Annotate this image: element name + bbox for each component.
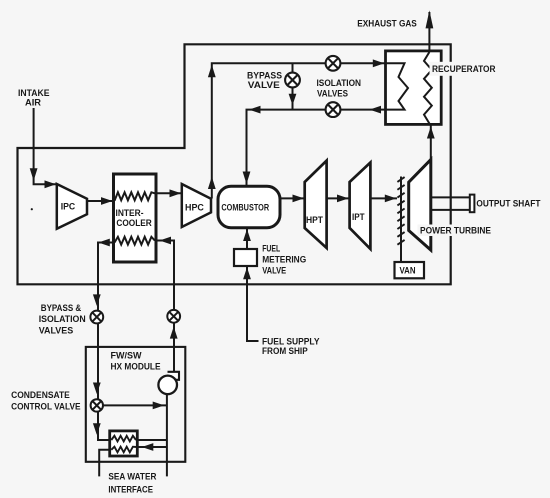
svg-text:VALVE: VALVE xyxy=(248,80,280,90)
svg-text:INTERFACE: INTERFACE xyxy=(108,485,153,495)
svg-text:BYPASS: BYPASS xyxy=(247,71,282,81)
svg-text:CONDENSATE: CONDENSATE xyxy=(11,390,70,400)
svg-text:HX MODULE: HX MODULE xyxy=(111,362,161,372)
svg-text:VAN: VAN xyxy=(400,265,416,275)
svg-text:ISOLATION: ISOLATION xyxy=(317,78,362,88)
svg-text:COOLER: COOLER xyxy=(116,218,152,228)
svg-text:INTER-: INTER- xyxy=(116,208,144,218)
svg-text:RECUPERATOR: RECUPERATOR xyxy=(432,64,496,74)
svg-text:VALVE: VALVE xyxy=(262,265,286,275)
svg-text:COMBUSTOR: COMBUSTOR xyxy=(221,202,269,212)
svg-text:ISOLATION: ISOLATION xyxy=(39,314,86,324)
svg-text:EXHAUST GAS: EXHAUST GAS xyxy=(357,18,417,28)
svg-text:FUEL SUPPLY: FUEL SUPPLY xyxy=(262,337,320,347)
svg-text:FUEL: FUEL xyxy=(262,243,280,253)
svg-text:AIR: AIR xyxy=(25,98,41,108)
svg-text:HPC: HPC xyxy=(185,202,204,212)
svg-text:CONTROL VALVE: CONTROL VALVE xyxy=(11,402,80,412)
svg-text:POWER TURBINE: POWER TURBINE xyxy=(420,226,491,236)
svg-text:FW/SW: FW/SW xyxy=(111,351,142,361)
svg-text:SEA WATER: SEA WATER xyxy=(108,472,156,482)
svg-text:BYPASS &: BYPASS & xyxy=(41,303,82,313)
svg-text:VALVES: VALVES xyxy=(39,326,73,336)
svg-text:OUTPUT SHAFT: OUTPUT SHAFT xyxy=(476,199,540,209)
svg-text:METERING: METERING xyxy=(262,255,306,265)
svg-text:IPT: IPT xyxy=(352,212,365,222)
svg-text:FROM SHIP: FROM SHIP xyxy=(262,346,308,356)
svg-text:IPC: IPC xyxy=(61,202,76,212)
svg-text:VALVES: VALVES xyxy=(317,89,348,99)
svg-text:HPT: HPT xyxy=(306,215,323,225)
